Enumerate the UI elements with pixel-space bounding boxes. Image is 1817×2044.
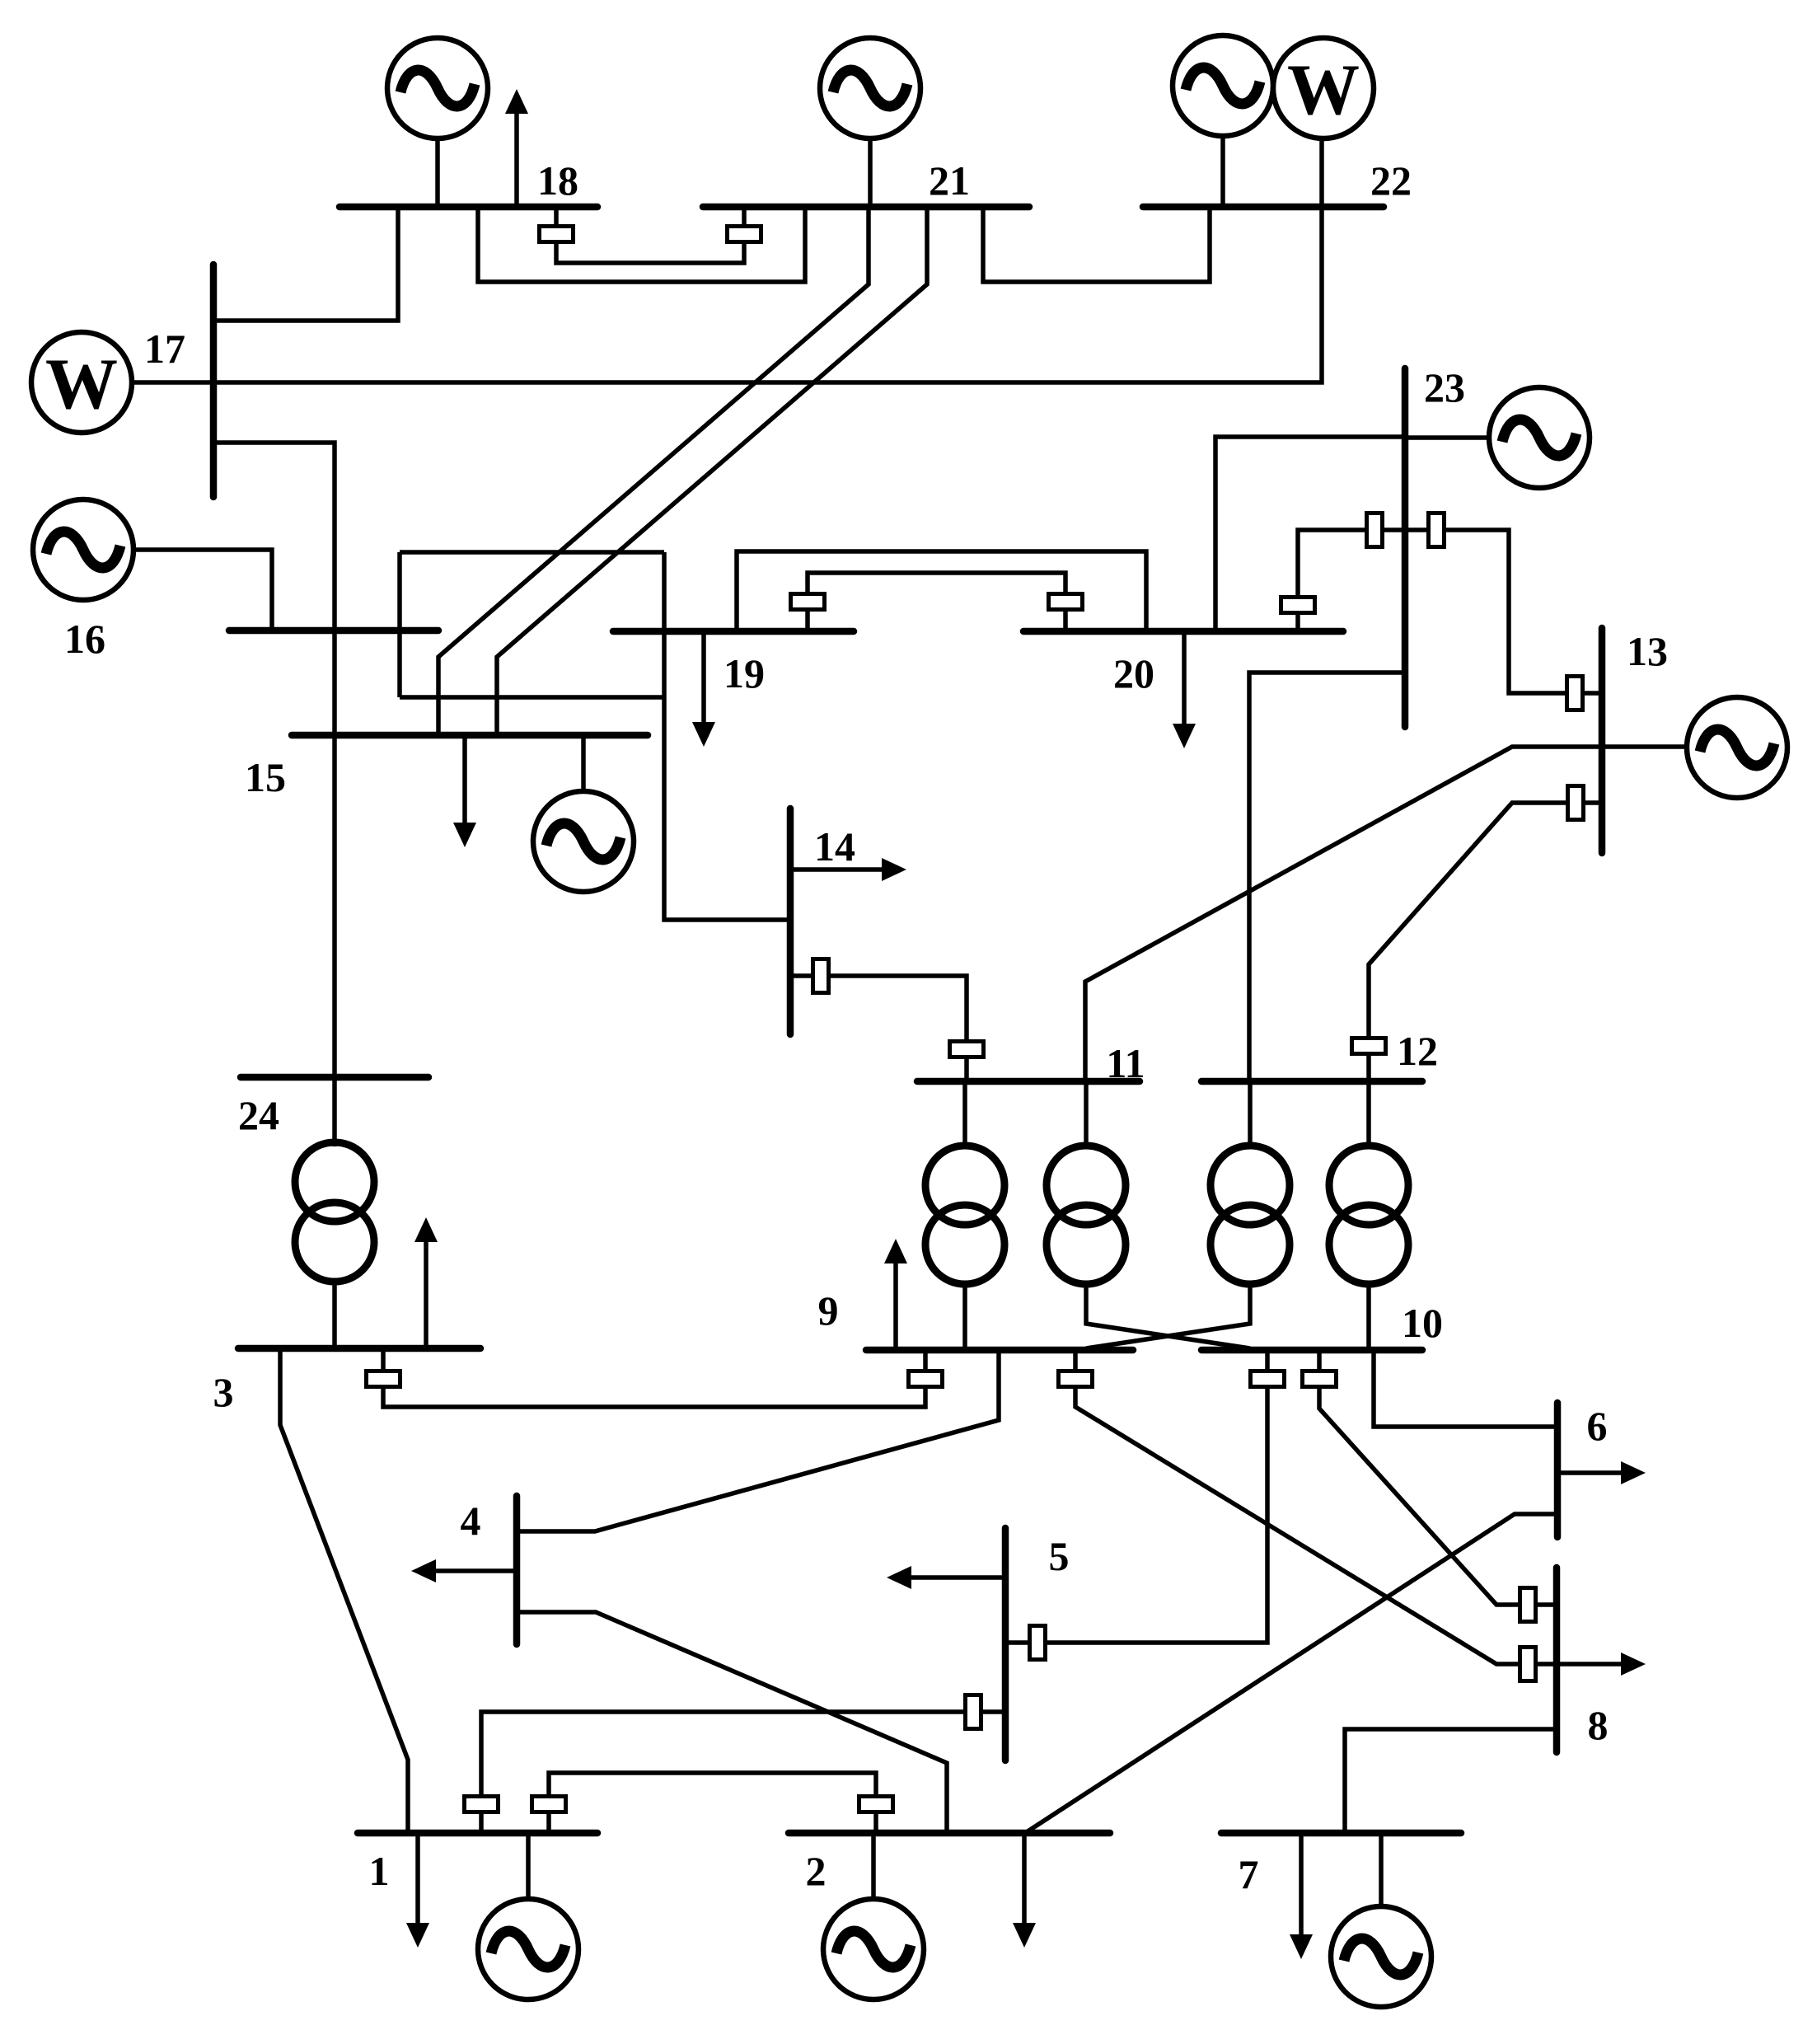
wire transformer 9-12 upper stem (1248, 1081, 1253, 1147)
wind generator W17 at bus 17 (31, 332, 132, 433)
breaker line 19-20 ckt2 at bus 19 (791, 594, 825, 610)
wire line 15-24 (332, 735, 337, 1077)
bus 7 bar (1221, 1830, 1461, 1837)
load arrow bus 20 (1182, 631, 1187, 725)
wind generator W22 at bus 22 (1273, 38, 1374, 138)
svg-text:12: 12 (1397, 1028, 1438, 1074)
breaker line 11-14 at bus 11 (950, 1042, 984, 1057)
bus 5 bar (1002, 1528, 1009, 1760)
svg-text:14: 14 (814, 823, 855, 870)
wire line 20-23 circuit 1 (1215, 437, 1405, 631)
wire line 1-3 (280, 1348, 408, 1833)
generator G23 at bus 23 (1489, 387, 1590, 488)
svg-text:20: 20 (1113, 650, 1154, 696)
wire line 8-9 (with breaker) (1075, 1350, 1557, 1664)
wire transformer 10-12 upper stem (1366, 1081, 1371, 1147)
wire transformer 9-11 lower stem (962, 1282, 967, 1350)
wire generator 13 lead (1602, 744, 1687, 749)
wire line 6-10 (1374, 1350, 1557, 1427)
wire generator 21 lead (868, 137, 873, 207)
load arrow bus 1 (415, 1833, 420, 1924)
svg-text:10: 10 (1402, 1300, 1443, 1346)
breaker line 19-20 ckt2 at bus 20 (1049, 594, 1083, 610)
wire generator 16 lead (133, 550, 272, 631)
bus 18 bar (340, 204, 597, 211)
wire line 5-10 (with breakers) (1005, 1350, 1267, 1643)
breaker line 3-9 at bus 3 (367, 1371, 400, 1387)
generator G16 at bus 16 (33, 499, 133, 600)
svg-text:22: 22 (1370, 157, 1412, 204)
breaker line 18-21 ckt1 at bus 18 (540, 227, 574, 242)
load arrow bus 7 (1299, 1833, 1304, 1936)
svg-text:8: 8 (1588, 1702, 1609, 1748)
load arrow bus 5 (910, 1575, 1005, 1580)
bus 15 bar (292, 732, 648, 739)
wire transformer 3-24 upper stem (332, 1077, 337, 1146)
wire transformer 10-11 lower stem crossover to bus 10 (1086, 1282, 1250, 1348)
transformer 9-12 (1211, 1146, 1290, 1225)
wire line 18-21 circuit 2 (478, 207, 805, 282)
wire line 11-14 (with breakers) (790, 976, 967, 1081)
bus 23 bar (1402, 368, 1409, 727)
bus 19 bar (613, 628, 854, 635)
breaker line 3-9 at bus 9 (909, 1371, 943, 1387)
wire line 2-4 (517, 1612, 947, 1833)
breaker line 1-2 at bus 2 (859, 1797, 893, 1812)
load arrow bus 9 (893, 1262, 898, 1350)
wire line 8-10 (with breakers) (1319, 1350, 1557, 1605)
load arrow bus 15 (462, 735, 467, 824)
bus 11 bar (917, 1078, 1140, 1085)
wire line 4-9 (517, 1350, 999, 1531)
wire transformer 10-11 upper stem (1084, 1081, 1089, 1147)
svg-text:17: 17 (144, 326, 185, 372)
load arrow bus 4 (434, 1568, 517, 1573)
wire line 7-8 (1345, 1729, 1557, 1833)
wire generator 15 lead (581, 735, 586, 791)
svg-text:7: 7 (1239, 1851, 1259, 1897)
bus 21 bar (703, 204, 1029, 211)
bus 3 bar (238, 1345, 480, 1353)
breaker line 13-23 at bus 13 (1567, 677, 1583, 710)
bus 8 bar (1553, 1568, 1561, 1752)
load arrow bus 6 (1557, 1470, 1623, 1475)
breaker line 1-5 at bus 5 (966, 1695, 981, 1729)
svg-text:1: 1 (369, 1848, 390, 1894)
wire line 17-22 (via W gen riser at bus 22) (213, 138, 1322, 382)
transformer 10-11 (1047, 1146, 1126, 1225)
wire line 18-21 circuit 1 (with breakers) (556, 207, 744, 263)
wire transformer 9-11 upper stem (962, 1081, 967, 1147)
breaker line 8-10 at bus 10 (1303, 1371, 1337, 1387)
generator G15 at bus 15 (533, 791, 634, 892)
load arrow bus 3 (424, 1240, 428, 1348)
generator G13 at bus 13 (1687, 697, 1787, 798)
svg-text:19: 19 (724, 650, 765, 696)
svg-text:23: 23 (1424, 364, 1465, 410)
wire line 11-13 (1085, 747, 1602, 1081)
breaker line 20-23 ckt2 at bus 23 (1367, 513, 1383, 547)
wire generator 22 lead (1220, 136, 1225, 207)
load arrow bus 2 (1022, 1833, 1027, 1924)
bus 14 bar (787, 809, 794, 1034)
bus 2 bar (789, 1830, 1110, 1837)
bus 16 bar (229, 627, 438, 635)
bus 13 bar (1599, 628, 1606, 853)
wire line 12-13 (with breakers) (1369, 803, 1602, 1081)
bus 20 bar (1023, 628, 1343, 635)
svg-text:W: W (1287, 50, 1360, 130)
wire generator 7 lead (1379, 1833, 1384, 1906)
wire generator 23 lead (1405, 435, 1489, 440)
load arrow bus 19 (701, 631, 706, 724)
svg-text:15: 15 (245, 754, 286, 800)
load arrow bus 8 (1557, 1662, 1623, 1667)
wire transformer 9-12 lower stem crossover to bus 9 (1086, 1282, 1250, 1348)
transformer 3-24 (295, 1142, 374, 1221)
wire line 15-16 (332, 631, 337, 735)
breaker line 13-23 at bus 23 (1429, 513, 1445, 547)
svg-text:W: W (45, 345, 118, 424)
bus 22 bar (1143, 204, 1384, 211)
wire line 21-22 (983, 207, 1210, 282)
wire line 14-16 / 16-19 shared drop through bus 19 to bus 14 (664, 552, 790, 920)
generator G2 at bus 2 (823, 1899, 924, 1999)
breaker line 8-10 at bus 8 (1520, 1588, 1536, 1622)
bus 17 bar (210, 265, 218, 497)
wire line 1-5 (with breakers) (481, 1712, 1005, 1833)
transformer 9-11 (925, 1146, 1005, 1225)
breaker line 11-14 at bus 14 (813, 959, 829, 993)
transformer 10-12 (1329, 1146, 1408, 1225)
wire transformer 10-12 lower stem (1366, 1282, 1371, 1350)
breaker line 12-13 at bus 13 (1568, 786, 1584, 820)
breaker line 5-10 at bus 5 (1030, 1626, 1046, 1660)
generator G21 at bus 21 (820, 38, 920, 138)
wire line 15-21 circuit 2 (497, 207, 927, 735)
wire line 13-23 (with breakers) (1405, 530, 1602, 693)
svg-text:11: 11 (1106, 1040, 1145, 1086)
bus 4 bar (513, 1496, 521, 1644)
wire generator 1 lead (526, 1833, 531, 1899)
bus 12 bar (1201, 1078, 1422, 1085)
bus 10 bar (1201, 1347, 1422, 1354)
wire transformer 3-24 lower stem (332, 1282, 337, 1348)
bus 6 bar (1554, 1403, 1562, 1537)
generator G22 at bus 22 (1173, 35, 1273, 136)
breaker line 18-21 ckt1 at bus 21 (728, 227, 761, 242)
svg-text:5: 5 (1049, 1533, 1070, 1579)
generator G18 at bus 18 (387, 38, 488, 138)
svg-text:18: 18 (537, 157, 578, 204)
breaker line 1-2 at bus 1 (532, 1797, 566, 1812)
breaker line 20-23 ckt2 at bus 20 (1281, 598, 1315, 613)
wire line 17-18 (213, 207, 398, 321)
generator G7 at bus 7 (1331, 1906, 1431, 2007)
breaker line 8-9 at bus 8 (1520, 1648, 1536, 1681)
bus 1 bar (358, 1830, 597, 1837)
wire line 14-16 lower run (400, 695, 664, 700)
wire line 20-23 circuit 2 (with breakers) (1298, 530, 1405, 631)
wire line 2-6 (1025, 1514, 1557, 1833)
wire line 12-23 (1249, 673, 1405, 1081)
bus 9 bar (866, 1347, 1133, 1354)
wire line 3-9 (with breakers) (383, 1348, 925, 1407)
svg-text:24: 24 (238, 1092, 279, 1138)
breaker line 5-10 at bus 10 (1251, 1371, 1285, 1387)
bus 24 bar (241, 1074, 428, 1081)
wire generator 2 lead (871, 1833, 876, 1899)
generator G1 at bus 1 (478, 1899, 578, 1999)
svg-text:16: 16 (64, 616, 105, 662)
wire W17 generator lead (130, 380, 213, 385)
svg-text:4: 4 (461, 1498, 481, 1544)
wire line 16-17 (213, 443, 335, 631)
load arrow bus 18 (514, 112, 519, 207)
breaker line 12-13 at bus 12 (1352, 1038, 1386, 1054)
wire line 15-21 circuit 1 (438, 207, 869, 735)
wire line 19-20 circuit 1 (737, 551, 1146, 631)
svg-text:13: 13 (1627, 628, 1668, 674)
load arrow bus 14 (790, 867, 883, 872)
breaker line 8-9 at bus 9 (1059, 1371, 1093, 1387)
wire line 19-20 circuit 2 (with breakers) (808, 573, 1065, 631)
wire line 16-19 upper run (400, 550, 664, 555)
wire line 16-19 riser at bus 16 (397, 552, 402, 697)
svg-text:2: 2 (806, 1848, 827, 1894)
svg-text:9: 9 (818, 1287, 839, 1334)
wire generator 18 lead (435, 137, 440, 207)
svg-text:21: 21 (929, 157, 970, 204)
breaker line 1-5 at bus 1 (465, 1797, 499, 1812)
svg-text:6: 6 (1587, 1403, 1608, 1449)
svg-text:3: 3 (213, 1369, 234, 1415)
wire line 1-2 (with breakers) (549, 1773, 876, 1833)
